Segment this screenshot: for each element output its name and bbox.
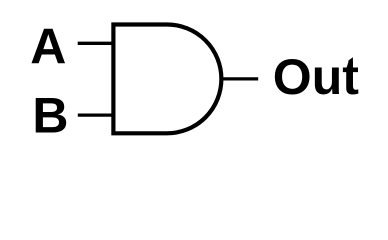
svg-text:A: A xyxy=(30,19,66,75)
wire output xyxy=(221,77,258,80)
wire B input xyxy=(78,113,114,116)
AND gate U1 xyxy=(113,25,221,134)
wire A input xyxy=(78,42,114,45)
svg-text:Out: Out xyxy=(273,49,359,105)
output label Out t-ascender extension xyxy=(348,57,353,64)
svg-text:B: B xyxy=(32,88,68,144)
